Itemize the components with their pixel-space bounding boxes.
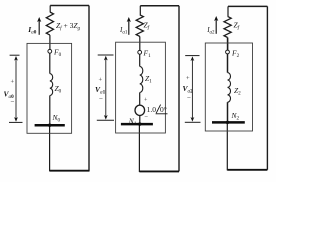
svg-text:Ia2: Ia2 — [206, 26, 215, 36]
svg-text:−: − — [187, 94, 191, 102]
resistor Zf+3Zg (zero-seq fault impedance) — [46, 12, 53, 35]
wire: source to N1 bar — [139, 116, 141, 125]
svg-text:Zf + 3Zg: Zf + 3Zg — [56, 21, 81, 32]
svg-text:−: − — [144, 114, 148, 121]
svg-text:−: − — [99, 95, 103, 103]
wire: resistor to node F1 — [139, 36, 141, 50]
node F0 terminal circle — [48, 49, 52, 53]
inductor Z1 — [140, 66, 143, 92]
wire: pos-seq outer loop bottom — [139, 170, 179, 172]
svg-text:N1: N1 — [128, 117, 137, 128]
wire: resistor to node F0 — [49, 35, 51, 49]
svg-text:Z0: Z0 — [55, 84, 62, 95]
svg-text:+: + — [186, 75, 190, 82]
dimension arrow Va0 top tick — [10, 54, 20, 56]
svg-text:N0: N0 — [52, 113, 61, 124]
wire: stub from top corner into resistor — [227, 6, 229, 16]
svg-text:Ia1: Ia1 — [119, 26, 128, 36]
svg-text:Zf: Zf — [234, 21, 241, 32]
wire: stub from top corner into resistor — [139, 6, 141, 15]
svg-text:F0: F0 — [53, 48, 62, 59]
junction at N2 — [226, 121, 229, 124]
wire: zero-seq outer loop bottom — [50, 170, 90, 172]
current arrow Ia0 — [38, 21, 40, 35]
wire: zero-seq left riser from bottom to N0 bar — [49, 125, 51, 171]
inductor Z2 — [228, 73, 231, 103]
wire: resistor to node F2 — [227, 38, 229, 51]
N0 bus bar — [35, 124, 65, 127]
dimension arrow Va0 bottom tick — [9, 121, 23, 123]
resistor Zf (pos-seq fault impedance) — [136, 15, 143, 37]
voltage source 1.0/0 deg — [135, 105, 145, 115]
zero-sequence network box — [27, 43, 72, 133]
inductor Z0 — [50, 74, 53, 96]
svg-text:+: + — [99, 77, 103, 84]
wire: F1 to coil Z1 — [139, 54, 141, 66]
positive-sequence network box — [116, 42, 166, 133]
N2 bus bar — [212, 121, 245, 124]
dimension arrow Va2 line — [191, 60, 193, 118]
svg-text:F2: F2 — [231, 49, 240, 60]
wire: F2 to coil Z2 — [227, 54, 229, 73]
svg-text:N2: N2 — [231, 111, 240, 122]
wire: zero-seq outer loop top — [50, 5, 89, 7]
svg-text:Z2: Z2 — [234, 86, 241, 97]
node F1 terminal circle — [138, 50, 142, 54]
resistor Zf (neg-seq fault impedance) — [224, 16, 231, 37]
svg-text:−: − — [11, 98, 15, 106]
dimension arrow Va1 top tick — [98, 54, 114, 56]
svg-text:Ia0: Ia0 — [27, 25, 37, 36]
wire: coil Z1 to source — [139, 93, 141, 106]
dimension arrow Va2 top tick — [185, 55, 199, 57]
svg-text:+: + — [11, 79, 15, 86]
wire: neg-seq left riser from bottom to N2 bar — [226, 122, 228, 170]
node F2 terminal circle — [226, 50, 230, 54]
dimension arrow Va2 bottom tick — [185, 121, 201, 123]
wire: F0 to coil Z0 — [49, 53, 51, 73]
wire: pos-seq outer loop right side — [178, 6, 180, 172]
junction at N1 — [138, 122, 141, 125]
wire: pos-seq outer loop top — [140, 5, 179, 7]
current arrow Ia1 — [128, 21, 130, 35]
svg-text:0°: 0° — [160, 105, 167, 114]
svg-text:+: + — [144, 98, 148, 104]
wire: coil Z2 to N2 bar — [227, 102, 229, 122]
negative-sequence network box — [205, 43, 252, 131]
dimension arrow Va1 bottom tick — [97, 119, 114, 121]
dimension arrow Va0 line — [15, 60, 17, 119]
svg-text:Z1: Z1 — [145, 74, 152, 85]
wire: neg-seq outer loop bottom — [227, 169, 267, 171]
svg-text:F1: F1 — [143, 49, 152, 60]
svg-text:Zf: Zf — [144, 21, 151, 32]
junction at N0 — [48, 124, 51, 127]
dimension arrow Va1 line — [105, 59, 107, 116]
wire: neg-seq outer loop top — [228, 5, 267, 7]
wire: stub from top corner into resistor — [49, 6, 51, 13]
current arrow Ia2 — [215, 20, 217, 34]
wire: zero-seq outer loop right side — [88, 6, 90, 171]
N1 bus bar — [121, 123, 153, 126]
wire: neg-seq outer loop right side — [266, 6, 268, 169]
wire: pos-seq left riser from bottom to N1 bar — [138, 124, 140, 172]
wire: coil Z0 to N0 bar — [49, 96, 51, 126]
svg-text:1.0: 1.0 — [147, 105, 157, 114]
